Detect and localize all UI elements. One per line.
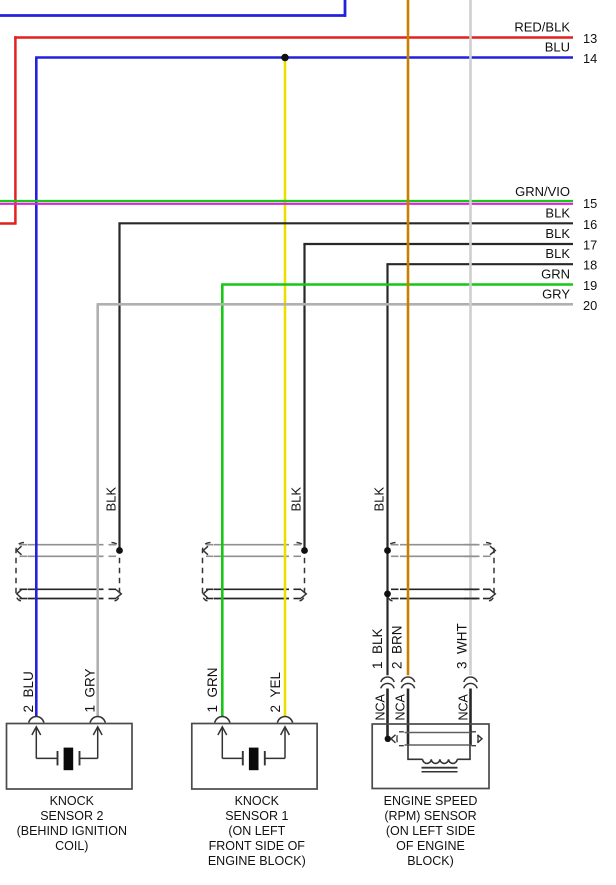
RPM internal right terminal arrow	[478, 735, 483, 743]
inline connector C1 left terminal arrows	[17, 546, 22, 598]
wire BLK net 18 horizontal	[386, 263, 573, 265]
svg-text:OF ENGINE: OF ENGINE	[396, 839, 465, 853]
svg-text:(RPM) SENSOR: (RPM) SENSOR	[384, 809, 476, 823]
caption knock sensor 2	[17, 794, 127, 853]
svg-text:ENGINE BLOCK): ENGINE BLOCK)	[208, 854, 306, 868]
caption engine speed sensor	[384, 794, 478, 868]
svg-text:BLK: BLK	[372, 487, 387, 512]
svg-text:GRY: GRY	[542, 286, 570, 301]
svg-text:SENSOR 1: SENSOR 1	[225, 809, 288, 823]
engine speed sensor box	[372, 724, 489, 789]
wire NCA stub to RPM sensor pin 2	[407, 689, 410, 746]
wire YEL vertical drop to knock sensor 1	[284, 58, 287, 717]
svg-text:1 GRY: 1 GRY	[83, 668, 98, 712]
svg-text:(ON LEFT SIDE: (ON LEFT SIDE	[386, 824, 475, 838]
svg-text:NCA: NCA	[374, 693, 388, 720]
svg-text:FRONT SIDE OF: FRONT SIDE OF	[209, 839, 306, 853]
wire GRN/VIO net 15 (green strand)	[0, 200, 573, 202]
svg-text:13: 13	[583, 31, 597, 46]
svg-text:2 YEL: 2 YEL	[268, 671, 283, 712]
svg-text:14: 14	[583, 51, 597, 66]
svg-text:19: 19	[583, 278, 597, 293]
knock sensor 1 piezo element (capacitor symbol) with terminal arrows	[218, 727, 290, 770]
node BLK-17 at connector C2	[301, 547, 308, 554]
svg-text:RED/BLK: RED/BLK	[514, 20, 570, 35]
wire BLU bus (top, off-page)	[0, 0, 345, 17]
wire RED/BLK net 13 left drop	[0, 36, 17, 223]
RPM sensor internal shield wires	[405, 732, 471, 734]
knock sensor 1 box	[192, 724, 317, 790]
svg-text:BLU: BLU	[545, 39, 570, 54]
svg-text:NCA: NCA	[457, 693, 471, 720]
RPM internal connector right shell (dashed)	[471, 732, 478, 746]
svg-text:COIL): COIL)	[55, 839, 88, 853]
inline connector C1 right terminal arrow	[116, 590, 121, 599]
svg-text:BLK: BLK	[289, 487, 304, 512]
node BLK-16 at connector C1	[116, 547, 123, 554]
wire GRY net 20 vertical drop to knock sensor 2	[96, 304, 99, 716]
inline connector C3 right terminal arrows	[490, 546, 495, 598]
svg-text:3 WHT: 3 WHT	[455, 623, 470, 669]
svg-text:(BEHIND IGNITION: (BEHIND IGNITION	[17, 824, 127, 838]
svg-text:SENSOR 2: SENSOR 2	[40, 809, 103, 823]
svg-text:17: 17	[583, 238, 597, 253]
inductor L1 (RPM pickup coil)	[408, 745, 470, 763]
wire BLK net 17 horizontal	[303, 243, 573, 245]
inline connector C2 left terminal arrows	[203, 546, 208, 598]
inline connector C2 left shell (dashed)	[203, 543, 214, 602]
svg-text:18: 18	[583, 258, 597, 273]
inductor core lines	[422, 767, 458, 769]
svg-text:KNOCK: KNOCK	[50, 794, 95, 808]
connector break at RPM sensor pin 1	[381, 677, 394, 688]
svg-text:2 BLU: 2 BLU	[21, 671, 36, 712]
knock sensor 2 box	[7, 724, 133, 790]
svg-text:GRN/VIO: GRN/VIO	[515, 184, 570, 199]
svg-text:BLK: BLK	[545, 205, 570, 220]
connector break at RPM sensor pin 2	[401, 677, 414, 688]
svg-text:15: 15	[583, 196, 597, 211]
svg-text:BLOCK): BLOCK)	[407, 854, 454, 868]
wire GRN/VIO net 15 (violet strand)	[0, 203, 573, 205]
svg-text:16: 16	[583, 217, 597, 232]
inline connector C3 pass-through wires	[400, 544, 480, 546]
svg-text:GRN: GRN	[541, 267, 570, 282]
svg-text:1 GRN: 1 GRN	[205, 667, 220, 712]
svg-text:NCA: NCA	[394, 693, 408, 720]
connector break at knock sensor 1 pin 2 (YEL)	[277, 717, 292, 723]
svg-text:BLK: BLK	[545, 226, 570, 241]
caption knock sensor 1	[208, 794, 306, 868]
inline connector C3 pass-through wires over WHT wire	[464, 545, 477, 599]
wire BLK net 16 vertical drop to connector C1	[118, 223, 120, 550]
wire BLK net 18 vertical drop to connector C3	[386, 264, 388, 675]
node BLK-18 upper at connector C3	[384, 547, 391, 554]
wire BLK net 17 vertical drop to connector C2	[303, 244, 305, 550]
RPM internal left terminal arrow	[391, 735, 396, 743]
wire GRY net 20 horizontal	[97, 303, 573, 306]
connector break at knock sensor 2 pin 1 (GRY)	[90, 717, 105, 723]
wire GRN net 19 vertical drop to knock sensor 1	[221, 285, 224, 717]
svg-text:1 BLK: 1 BLK	[370, 628, 385, 669]
connector break at knock sensor 2 pin 2 (BLU)	[29, 717, 44, 723]
svg-text:20: 20	[583, 298, 597, 313]
inline connector C2 right terminal arrow	[301, 590, 306, 599]
wire BLK net 16 horizontal	[118, 222, 573, 224]
wire NCA stub to RPM sensor pin 1	[386, 689, 389, 740]
inline connector C2 right shell (dashed)	[294, 543, 305, 602]
svg-text:BLK: BLK	[104, 487, 119, 512]
wire NCA stub to RPM sensor pin 3	[469, 689, 472, 746]
connector break at RPM sensor pin 3	[464, 677, 477, 688]
inline connector C3 right shell (dashed)	[483, 543, 494, 602]
svg-text:KNOCK: KNOCK	[235, 794, 280, 808]
wire BLU net 14 vertical drop to knock sensor 2	[35, 58, 38, 717]
inline connector C2 pass-through wires	[214, 544, 289, 546]
knock sensor 2 piezo element (capacitor symbol) with terminal arrows	[32, 727, 102, 770]
svg-text:BLK: BLK	[545, 246, 570, 261]
svg-text:(ON LEFT: (ON LEFT	[228, 824, 285, 838]
wire BRN vertical (from top, to RPM sensor pin 2)	[407, 0, 410, 675]
wire BLU net 14 horizontal	[35, 56, 573, 59]
RPM internal connector left shell (dashed)	[397, 732, 404, 746]
node junction BLU/YEL	[281, 54, 289, 62]
node BLK-18 lower at connector C3	[384, 591, 391, 598]
connector break at knock sensor 1 pin 1 (GRN)	[215, 717, 230, 723]
inline connector C1 right shell (dashed)	[109, 543, 120, 602]
wire GRN net 19 horizontal	[221, 283, 573, 286]
inline connector C1 pass-through wires	[28, 544, 104, 546]
svg-text:ENGINE SPEED: ENGINE SPEED	[384, 794, 478, 808]
wire WHT vertical (from top, to RPM sensor pin 3)	[469, 0, 472, 675]
svg-text:2 BRN: 2 BRN	[390, 625, 405, 669]
inline connector C1 left shell (dashed)	[16, 543, 27, 602]
inline connector C3 left shell (dashed)	[388, 543, 399, 602]
node RPM pin 1 shield	[385, 736, 391, 742]
wire RED/BLK net 13 horizontal	[14, 36, 573, 39]
